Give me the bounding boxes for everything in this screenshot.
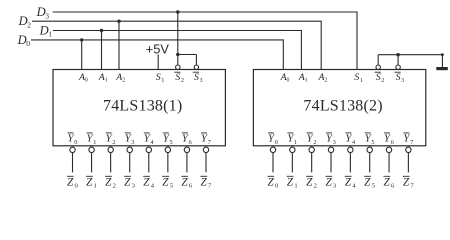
pin label S1 (U2) (354, 72, 363, 84)
svg-text:3: 3 (200, 78, 203, 84)
wire: ground drop (441, 55, 443, 67)
wire: U2 Y0 output (272, 152, 274, 172)
svg-text:5: 5 (372, 182, 376, 189)
inversion bubble Y0 (U2) (270, 147, 275, 152)
inversion bubble Y6 (U1) (184, 147, 189, 152)
svg-text:2: 2 (314, 182, 317, 189)
svg-text:0: 0 (75, 182, 79, 189)
wire: D1 to U2 A1 (300, 30, 302, 70)
svg-text:1: 1 (161, 78, 164, 84)
pin label A0 (U2) (280, 72, 290, 84)
svg-text:3: 3 (132, 182, 136, 189)
svg-text:0: 0 (287, 78, 290, 84)
svg-text:1: 1 (294, 182, 297, 189)
svg-text:7: 7 (208, 139, 211, 146)
net label Z3 (group 1) (124, 176, 136, 189)
svg-text:Z: Z (345, 177, 352, 189)
svg-text:+5V: +5V (146, 41, 170, 56)
pin label A2 (U1) (115, 72, 125, 84)
svg-text:5: 5 (371, 139, 374, 146)
net label Z7 (group 2) (403, 176, 415, 189)
svg-text:2: 2 (113, 182, 116, 189)
net label Z6 (group 2) (383, 176, 395, 189)
svg-text:0: 0 (275, 182, 279, 189)
svg-text:Z: Z (306, 177, 313, 189)
wire: D3 bus (53, 11, 357, 13)
net label Z1 (group 2) (287, 176, 298, 189)
wire: U1 S2-S3 link (178, 54, 197, 56)
svg-text:6: 6 (391, 182, 395, 189)
junction: U1 S2/S3 tee (176, 53, 179, 56)
ground symbol (436, 67, 448, 70)
wire: D0 to U1 A0 (81, 40, 83, 70)
wire: D1 to U1 A1 (101, 31, 103, 70)
net label Z6 (group 1) (181, 176, 193, 189)
inversion bubble Y2 (U1) (108, 147, 113, 152)
inversion bubble Y4 (U1) (146, 147, 151, 152)
svg-text:3: 3 (131, 139, 134, 146)
svg-text:74LS138(2): 74LS138(2) (303, 97, 382, 114)
wire: D0 to U2 A0 (282, 39, 284, 69)
net label Z7 (group 1) (200, 176, 212, 189)
wire: D3 drop to U1 enable (177, 12, 179, 65)
net label Z4 (group 2) (345, 176, 357, 189)
svg-text:Z: Z (105, 177, 112, 189)
wire: U2 Y5 output (369, 152, 371, 172)
pin label Y4bar (U2) (345, 132, 355, 146)
svg-text:2: 2 (122, 78, 125, 84)
svg-text:Z: Z (364, 177, 371, 189)
svg-text:6: 6 (189, 139, 192, 146)
wire: U1 Y1 output (91, 152, 93, 172)
wire: D2 to U2 A2 (320, 21, 322, 70)
pin label Y2bar (U1) (106, 132, 116, 146)
wire: D3 to U2 S1 (356, 12, 358, 70)
junction: D2/A2(U1) (117, 20, 120, 23)
junction: ground corner (441, 53, 444, 56)
inversion bubble Y4 (U2) (348, 147, 353, 152)
svg-text:2: 2 (181, 78, 184, 84)
wire: link to U1 S3 (195, 55, 197, 66)
wire: U1 Y6 output (186, 152, 188, 172)
svg-text:2: 2 (381, 78, 384, 84)
svg-text:3: 3 (401, 78, 404, 84)
svg-text:Z: Z (86, 177, 93, 189)
wire: U2 Y3 output (330, 152, 332, 172)
pin label Y6bar (U2) (384, 132, 394, 146)
wire: +5V to U1 S1 (157, 55, 159, 70)
net label Z0 (group 1) (67, 176, 79, 189)
svg-text:2: 2 (313, 139, 316, 146)
svg-text:Z: Z (67, 177, 74, 189)
pin label A2 (U2) (318, 72, 328, 84)
inversion bubble Y3 (U2) (328, 147, 333, 152)
svg-text:4: 4 (352, 139, 355, 146)
net label Z5 (group 2) (364, 176, 376, 189)
inversion bubble Y7 (U2) (406, 147, 411, 152)
svg-text:4: 4 (151, 182, 155, 189)
svg-text:Z: Z (124, 177, 131, 189)
inversion bubble Y3 (U1) (127, 147, 132, 152)
pin label Y2bar (U2) (307, 132, 317, 146)
svg-text:Z: Z (383, 177, 390, 189)
decoder U1 74LS138(1) body (53, 70, 225, 146)
pin label Y1bar (U1) (87, 132, 97, 146)
pin label Y5bar (U2) (365, 132, 375, 146)
net label Z2 (group 1) (105, 176, 116, 189)
svg-text:7: 7 (410, 182, 414, 189)
svg-text:D: D (17, 33, 27, 47)
pin label Y7bar (U1) (201, 132, 211, 146)
net label D1 (39, 23, 53, 38)
decoder U2 74LS138(2) body (253, 70, 425, 146)
wire: U1 Y5 output (167, 152, 169, 172)
svg-text:S: S (396, 72, 401, 83)
net label D2 (18, 14, 32, 29)
svg-text:74LS138(1): 74LS138(1) (103, 97, 182, 114)
pin label Y6bar (U1) (182, 132, 192, 146)
wire: U2 enable to ground (378, 54, 442, 56)
svg-text:Z: Z (325, 177, 332, 189)
junction: D3 bus tap (176, 10, 179, 13)
svg-text:5: 5 (170, 139, 173, 146)
svg-text:2: 2 (324, 78, 327, 84)
inversion bubble Y1 (U2) (290, 147, 295, 152)
svg-text:D: D (39, 23, 49, 37)
svg-text:3: 3 (45, 12, 49, 21)
svg-text:1: 1 (305, 78, 308, 84)
svg-text:0: 0 (275, 139, 278, 146)
pin label Y7bar (U2) (403, 132, 413, 146)
net label Z2 (group 2) (306, 176, 317, 189)
pin label Y0bar (U1) (67, 132, 77, 146)
inversion bubble Y0 (U1) (70, 147, 75, 152)
svg-text:S: S (194, 72, 199, 83)
pin label Y1bar (U2) (287, 132, 297, 146)
svg-text:3: 3 (333, 139, 336, 146)
svg-text:S: S (175, 72, 180, 83)
inversion bubble S3 (U2) (396, 65, 400, 69)
pin label S3bar (U2) (395, 72, 405, 84)
net label Z1 (group 1) (86, 176, 97, 189)
junction: D1/A1(U1) (100, 29, 103, 32)
pin label A1 (U1) (98, 72, 108, 84)
pin label Y0bar (U2) (268, 132, 278, 146)
pin label S2bar (U2) (375, 72, 385, 84)
wire: D0 bus (31, 39, 283, 41)
svg-text:5: 5 (170, 182, 174, 189)
svg-text:Z: Z (162, 177, 169, 189)
svg-text:3: 3 (333, 182, 337, 189)
svg-text:S: S (156, 72, 161, 83)
wire: U1 Y3 output (129, 152, 131, 172)
svg-text:4: 4 (352, 182, 356, 189)
wire: U1 Y7 output (205, 152, 207, 172)
inversion bubble Y6 (U2) (386, 147, 391, 152)
svg-text:1: 1 (94, 182, 97, 189)
svg-text:6: 6 (189, 182, 193, 189)
svg-text:6: 6 (391, 139, 394, 146)
junction: U2 S3 tee (396, 53, 399, 56)
pin label Y5bar (U1) (163, 132, 173, 146)
wire: U1 Y2 output (110, 152, 112, 172)
wire: D2 to U1 A2 (118, 21, 120, 69)
svg-text:1: 1 (48, 30, 52, 39)
net label Z5 (group 1) (162, 176, 174, 189)
inversion bubble Y5 (U2) (367, 147, 372, 152)
svg-text:1: 1 (93, 139, 96, 146)
wire: U2 S2 up (377, 55, 379, 65)
svg-text:0: 0 (26, 39, 30, 48)
pin label A0 (U1) (78, 72, 88, 84)
inversion bubble Y2 (U2) (309, 147, 314, 152)
pin label S3bar (U1) (193, 72, 203, 84)
svg-text:Z: Z (267, 177, 274, 189)
pin label S1 (U1) (156, 72, 165, 84)
pin label A1 (U2) (298, 72, 308, 84)
wire: U2 Y1 output (291, 152, 293, 172)
inversion bubble Y5 (U1) (165, 147, 170, 152)
svg-text:S: S (376, 72, 381, 83)
inversion bubble S2 (U2) (376, 65, 380, 69)
inversion bubble Y7 (U1) (203, 147, 208, 152)
svg-text:2: 2 (27, 21, 31, 30)
net label D3 (36, 5, 50, 20)
svg-text:1: 1 (294, 139, 297, 146)
net label Z0 (group 2) (267, 176, 279, 189)
svg-text:Z: Z (403, 177, 410, 189)
pin label S2bar (U1) (174, 72, 184, 84)
pin label Y4bar (U1) (144, 132, 154, 146)
wire: U2 Y4 output (349, 152, 351, 172)
net label Z4 (group 1) (143, 176, 155, 189)
inversion bubble S3 (U1) (194, 65, 198, 69)
pin label Y3bar (U2) (326, 132, 336, 146)
junction: D0/A0(U1) (80, 38, 83, 41)
wire: U2 S3 up (397, 55, 399, 65)
svg-text:1: 1 (105, 78, 108, 84)
svg-text:S: S (354, 72, 359, 83)
wire: U1 Y4 output (148, 152, 150, 172)
svg-text:4: 4 (150, 139, 153, 146)
svg-text:Z: Z (181, 177, 188, 189)
svg-text:0: 0 (74, 139, 77, 146)
wire: U2 Y2 output (311, 152, 313, 172)
svg-text:Z: Z (143, 177, 150, 189)
svg-text:7: 7 (410, 139, 413, 146)
svg-text:Z: Z (200, 177, 207, 189)
net label Z3 (group 2) (325, 176, 337, 189)
svg-text:D: D (36, 5, 46, 19)
svg-text:0: 0 (85, 78, 88, 84)
pin label Y3bar (U1) (125, 132, 135, 146)
svg-text:2: 2 (112, 139, 115, 146)
inversion bubble Y1 (U1) (89, 147, 94, 152)
wire: U1 Y0 output (72, 152, 74, 172)
inversion bubble S2 (U1) (176, 65, 180, 69)
wire: U2 Y6 output (388, 152, 390, 172)
svg-text:D: D (18, 14, 28, 28)
svg-text:7: 7 (208, 182, 212, 189)
svg-text:1: 1 (360, 78, 363, 84)
net label D0 (17, 33, 31, 48)
svg-text:Z: Z (287, 177, 294, 189)
wire: D1 bus (53, 30, 301, 32)
wire: U2 Y7 output (407, 152, 409, 172)
wire: D2 bus (32, 20, 321, 22)
